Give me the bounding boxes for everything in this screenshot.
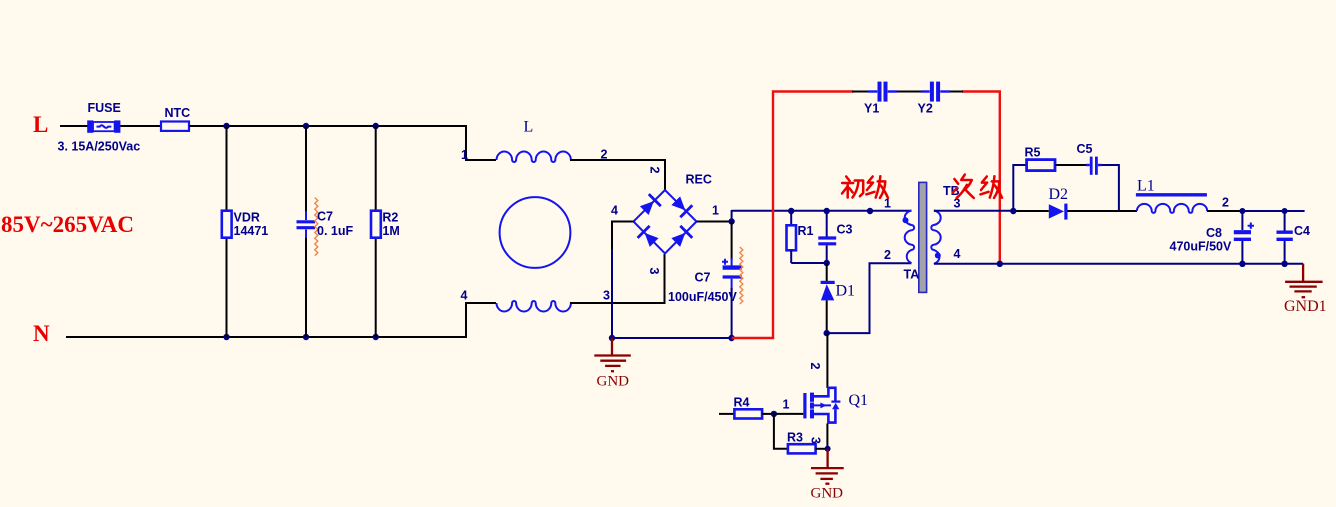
transformer TA primary phase dot — [903, 217, 909, 223]
wire D2 to L1 — [1068, 210, 1138, 212]
no-fit marker zigzag C7 bulk — [740, 247, 743, 304]
svg-text:R5: R5 — [1025, 146, 1041, 160]
node gate — [771, 411, 777, 417]
node drain junction — [824, 330, 830, 336]
svg-text:3: 3 — [809, 437, 823, 444]
resistor R3 — [788, 444, 816, 453]
svg-text:Q1: Q1 — [849, 392, 869, 409]
label VDR 14471 — [234, 211, 269, 238]
label C7 0.1uF — [317, 210, 353, 238]
svg-text:470uF/50V: 470uF/50V — [1170, 240, 1233, 254]
node N-R2 junction — [373, 334, 379, 340]
wire choke pin3 to bridge bottom — [570, 254, 665, 303]
wire choke pin2 to bridge top — [570, 160, 665, 190]
resistor R4 — [734, 409, 762, 418]
capacitor C7 bulk — [722, 222, 742, 339]
capacitor C7 X-cap — [297, 211, 316, 238]
choke core circle — [500, 197, 571, 268]
node N-VDR junction — [223, 334, 229, 340]
transistor Q1 — [803, 388, 840, 423]
svg-text:3: 3 — [647, 268, 661, 275]
svg-text:3. 15A/250Vac: 3. 15A/250Vac — [58, 140, 141, 154]
svg-text:C7: C7 — [317, 210, 333, 224]
svg-text:14471: 14471 — [234, 224, 269, 238]
node red to bottom rail — [997, 261, 1003, 267]
svg-text:L1: L1 — [1137, 178, 1155, 195]
resistor R2 — [371, 211, 381, 238]
wire bridge pin1 to DC node — [697, 221, 732, 223]
node C8 bottom — [1239, 261, 1245, 267]
node gnd rail left — [609, 335, 615, 341]
wire Y2 right lead — [950, 91, 963, 93]
svg-text:GND: GND — [597, 374, 630, 390]
wire primary top rail — [732, 210, 912, 212]
wire R4 lead-in — [719, 413, 734, 415]
wire C7 X-cap branch — [305, 126, 307, 337]
svg-text:100uF/450V: 100uF/450V — [668, 290, 737, 304]
wire VDR branch — [226, 126, 228, 337]
svg-text:4: 4 — [461, 289, 468, 303]
svg-text:1: 1 — [712, 204, 719, 218]
svg-text:2: 2 — [884, 248, 891, 262]
rectifier REC diamond — [634, 190, 697, 254]
node L-VDR junction — [223, 123, 229, 129]
svg-text:4: 4 — [954, 247, 961, 261]
wire DC stub up — [731, 210, 733, 222]
inductor L bottom winding — [497, 301, 571, 312]
svg-text:FUSE: FUSE — [88, 101, 121, 115]
svg-text:C7: C7 — [695, 271, 711, 285]
wire N rail to choke — [66, 303, 496, 337]
svg-text:1: 1 — [783, 398, 790, 412]
no-fit marker zigzag C7 — [315, 198, 318, 256]
wire R2 branch — [375, 126, 377, 337]
svg-text:Y2: Y2 — [918, 102, 933, 116]
svg-text:D1: D1 — [836, 283, 856, 300]
capacitor C4 — [1277, 211, 1293, 264]
wire drain lead — [826, 333, 828, 388]
inductor L1 bar — [1136, 193, 1207, 196]
svg-text:C8: C8 — [1206, 226, 1222, 240]
transformer TA primary winding — [905, 211, 914, 264]
node L-C7 junction — [303, 123, 309, 129]
wire gate node to gate — [774, 413, 803, 415]
ground GND Q1 — [811, 449, 844, 484]
wire red right loop — [962, 92, 1000, 264]
node rail pin1 — [867, 208, 873, 214]
svg-text:C3: C3 — [837, 223, 853, 237]
wire drain to xfmr pin2 — [827, 263, 912, 333]
node rail C3 — [824, 208, 830, 214]
svg-text:2: 2 — [808, 363, 822, 370]
varistor VDR — [222, 211, 232, 238]
wire xfmr pin3 to secondary rail — [934, 210, 1013, 212]
thermistor NTC — [161, 122, 189, 131]
wire fuse to NTC — [120, 125, 161, 127]
transformer TA secondary phase dot — [935, 253, 941, 259]
wire red left loop — [732, 92, 854, 339]
svg-text:4: 4 — [611, 204, 618, 218]
wire secondary bottom rail — [1000, 263, 1303, 265]
svg-text:REC: REC — [686, 173, 712, 187]
svg-text:1M: 1M — [382, 224, 399, 238]
wire Y1 left lead — [852, 91, 869, 93]
svg-text:0. 1uF: 0. 1uF — [317, 224, 353, 238]
svg-text:R4: R4 — [734, 396, 750, 410]
wire xfmr pin4 to secondary bottom rail — [934, 263, 1001, 265]
capacitor Y2 — [921, 82, 950, 102]
svg-text:C5: C5 — [1077, 142, 1093, 156]
node L-R2 junction — [373, 123, 379, 129]
svg-text:N: N — [33, 321, 50, 346]
ground GND1 — [1285, 264, 1323, 298]
svg-text:85V~265VAC: 85V~265VAC — [1, 212, 134, 237]
svg-text:1: 1 — [461, 148, 468, 162]
svg-text:R1: R1 — [798, 224, 814, 238]
svg-text:NTC: NTC — [165, 106, 191, 120]
label primary CJK — [842, 177, 863, 198]
svg-text:3: 3 — [603, 289, 610, 303]
svg-text:Y1: Y1 — [864, 102, 879, 116]
node secondary rail R5 branch — [1010, 208, 1016, 214]
label ji CJK secondary — [980, 176, 1002, 198]
svg-text:L: L — [33, 112, 48, 137]
diode D1 — [821, 263, 835, 333]
node snubber bottom — [824, 260, 830, 266]
wire R1-C3 bottom link — [791, 262, 827, 264]
node source — [825, 446, 831, 452]
inductor L1 winding — [1137, 204, 1207, 213]
wire Y1-Y2 — [897, 91, 921, 93]
svg-text:C4: C4 — [1294, 224, 1310, 238]
svg-text:GND1: GND1 — [1284, 298, 1327, 315]
wire R5 to C5 — [1055, 164, 1087, 166]
node N-C7 junction — [303, 334, 309, 340]
wire output rail — [1242, 210, 1304, 212]
inductor L top winding — [497, 151, 571, 162]
wire R4 to gate node — [762, 413, 774, 415]
ground GND bridge — [594, 338, 631, 371]
wire source lead — [826, 424, 828, 449]
capacitor C8 — [1234, 211, 1254, 264]
resistor R5 — [1027, 160, 1055, 171]
wire L rail to choke — [189, 126, 496, 160]
capacitor Y1 — [868, 82, 897, 102]
diode D2 — [1049, 204, 1066, 220]
capacitor C5 — [1086, 157, 1102, 175]
node C8 top — [1239, 208, 1245, 214]
svg-text:L: L — [524, 119, 534, 136]
wire bottom rail gnd — [612, 337, 732, 339]
node C4 top — [1282, 208, 1288, 214]
fuse FUSE body — [87, 120, 120, 132]
wire C5 to rail — [1102, 165, 1119, 211]
svg-text:VDR: VDR — [234, 211, 260, 225]
label R2 1M — [382, 211, 399, 238]
label secondary CJK — [953, 175, 974, 198]
wire L lead-in — [60, 125, 88, 127]
node DC plus — [728, 218, 734, 224]
wire R5 branch up — [1013, 165, 1026, 211]
label ji CJK primary — [866, 176, 888, 198]
wire bridge pin4 to gnd rail — [612, 222, 634, 251]
node rail R1 — [788, 208, 794, 214]
wire gate node down to R3 — [774, 414, 788, 449]
svg-text:R2: R2 — [382, 211, 398, 225]
node C4 bottom — [1281, 261, 1287, 267]
svg-text:GND: GND — [811, 486, 844, 502]
capacitor C3 — [818, 211, 836, 263]
wire R3 to source node — [816, 448, 828, 450]
svg-text:2: 2 — [648, 167, 662, 174]
svg-text:2: 2 — [1222, 196, 1229, 210]
svg-text:D2: D2 — [1049, 186, 1069, 203]
transformer TA secondary winding — [931, 211, 940, 264]
resistor R1 — [787, 211, 797, 263]
transformer TA core — [919, 182, 927, 292]
svg-text:TA: TA — [904, 268, 920, 282]
node gnd rail right — [728, 335, 734, 341]
wire L1 to output — [1207, 210, 1243, 212]
svg-text:R3: R3 — [787, 431, 803, 445]
